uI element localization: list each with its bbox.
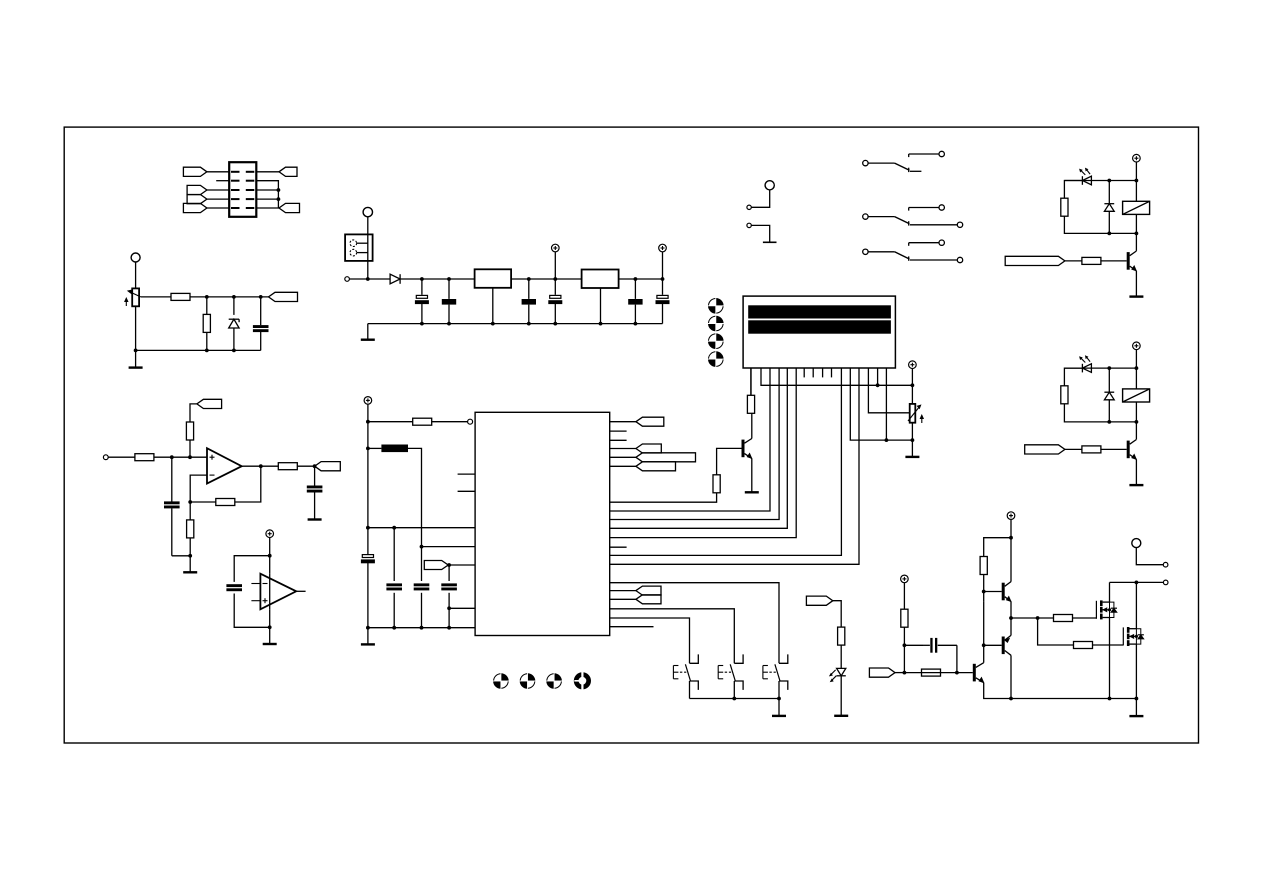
junction <box>982 590 986 594</box>
relay coil K 2 <box>1123 389 1150 402</box>
supply symbol V+ 1 <box>1133 154 1141 180</box>
wire emitter Q2 <box>1010 618 1012 635</box>
wire bus RS <box>610 368 842 555</box>
resistor <box>203 314 210 332</box>
wire 2 <box>1135 402 1137 422</box>
LED 2 <box>1080 356 1092 373</box>
rotary mark <box>708 316 724 332</box>
supply symbol V+ top <box>1007 512 1015 582</box>
resistor reset pullup <box>413 418 432 425</box>
capacitor input filter <box>164 457 190 556</box>
output capacitor <box>307 466 323 519</box>
wire bus DB7 <box>610 368 797 538</box>
wire main rail <box>400 278 474 280</box>
junction <box>277 188 281 192</box>
wire 2 <box>1064 404 1136 422</box>
ground <box>834 715 848 717</box>
wire buttons ground rail <box>690 698 780 700</box>
junction <box>447 626 451 630</box>
wire <box>141 296 171 298</box>
contrast trimmer body <box>910 404 916 423</box>
ground <box>1129 715 1143 717</box>
input terminal <box>103 455 108 460</box>
wire <box>206 332 208 350</box>
stub bar <box>763 241 777 243</box>
resistor gate M2 <box>1074 642 1093 649</box>
ground <box>745 491 759 493</box>
junction <box>1108 697 1112 701</box>
plus stub <box>251 598 267 603</box>
ground <box>772 715 786 717</box>
junction 2 <box>1107 366 1111 370</box>
net flag <box>636 462 676 471</box>
junction <box>259 295 263 299</box>
wire <box>190 404 197 422</box>
wire output node <box>1011 617 1054 619</box>
wire <box>840 676 842 716</box>
wire emitter 2 <box>1135 459 1137 484</box>
wire <box>840 645 842 668</box>
terminal pad <box>765 181 774 190</box>
wire <box>1073 617 1097 619</box>
push button S6 <box>763 654 788 698</box>
trimmer adjust arrow <box>125 298 128 306</box>
wire source M2 <box>1135 644 1137 698</box>
capacitor C o2 polarized <box>548 279 562 324</box>
junction <box>1009 697 1013 701</box>
wire reset pullup <box>368 421 413 423</box>
rotary mark <box>708 351 724 367</box>
junction <box>170 455 174 459</box>
supply symbol V+ 2 <box>659 244 667 279</box>
resistor gate M1 <box>1054 615 1073 622</box>
junction <box>634 277 638 281</box>
junction <box>205 295 209 299</box>
wire bottom rail <box>368 323 663 325</box>
transistor Q2 PNP <box>1002 635 1011 655</box>
junction <box>903 671 907 675</box>
junction <box>903 643 907 647</box>
open pin <box>747 205 751 209</box>
supply symbol V+ opamp <box>266 530 274 574</box>
net flag row1 left <box>183 167 207 176</box>
wire row4 right <box>256 198 278 200</box>
microcontroller IC3 box <box>475 412 610 635</box>
junction <box>313 464 317 468</box>
junction <box>553 277 557 281</box>
switch S2 <box>863 205 963 228</box>
resistor base 2 <box>1065 446 1127 453</box>
junction <box>268 554 272 558</box>
wire <box>297 465 314 467</box>
junction <box>420 626 424 630</box>
open pin <box>1163 580 1168 585</box>
wire through triangle <box>269 574 271 628</box>
junction <box>527 277 531 281</box>
net flag row5 right <box>279 203 300 212</box>
net flag 1 <box>1005 256 1065 265</box>
wire <box>448 564 475 566</box>
junction <box>527 322 531 326</box>
junction <box>732 697 736 701</box>
wire <box>1135 699 1137 716</box>
transistor Q1 NPN <box>1002 582 1011 602</box>
wire <box>367 628 369 644</box>
wire emitter 1 <box>1135 271 1137 296</box>
LCD pin 2 lead to V+ <box>761 368 912 385</box>
wire base Q2 <box>984 644 1002 646</box>
ferrite bead L1 <box>368 445 408 453</box>
resistor <box>171 293 190 300</box>
ground <box>361 643 375 645</box>
wire <box>984 538 1011 557</box>
push button S4 <box>673 654 698 698</box>
net flag status LED <box>806 596 832 605</box>
wire pin <box>610 590 636 592</box>
wire <box>895 672 904 674</box>
junction <box>188 500 192 504</box>
push button S5 <box>718 654 743 698</box>
wire <box>511 278 581 280</box>
flyback diode 1 <box>1104 181 1114 234</box>
connector SV1 pin row 5 dashes <box>231 207 254 209</box>
resistor backlight base <box>713 466 720 493</box>
net flag <box>636 586 661 595</box>
wire <box>207 171 229 173</box>
capacitor C o1 <box>522 279 536 324</box>
LCD pin 15 lead <box>877 368 879 385</box>
rotary mark <box>520 673 536 689</box>
capacitor C o3 <box>628 279 642 324</box>
ground <box>129 366 143 368</box>
flyback diode 2 <box>1104 368 1114 422</box>
LED 1 <box>1080 168 1092 185</box>
reset pin bubble <box>468 419 473 424</box>
wire collector <box>751 413 753 438</box>
jack pin contact 1 <box>350 240 368 247</box>
rotary mark <box>708 298 724 314</box>
supply symbol V+ <box>552 244 560 279</box>
connector SV1 pin row 3 dashes <box>231 189 254 191</box>
junction <box>599 322 603 326</box>
bypass capacitor <box>226 584 242 591</box>
wire <box>367 261 369 279</box>
connector SV1 pin row 4 dashes <box>231 198 254 200</box>
wire drain M2 <box>1135 582 1137 628</box>
LCD display box <box>743 296 895 368</box>
junction <box>955 671 959 675</box>
ground <box>263 643 277 645</box>
LCD row1 black bar <box>748 305 891 318</box>
resistor LED 2 <box>1061 386 1068 404</box>
voltage regulator IC2 <box>582 270 619 324</box>
wire emitter <box>751 458 753 492</box>
ground <box>905 456 919 458</box>
junction <box>634 322 638 326</box>
wire 2 <box>1135 368 1137 389</box>
capacitor C mcu3 <box>441 565 457 628</box>
trimmer R body <box>132 288 139 306</box>
net flag row5 left <box>183 203 207 212</box>
open pin <box>345 277 350 282</box>
wire row5 right <box>256 207 279 209</box>
junction 2 <box>1135 366 1139 370</box>
wire <box>911 423 913 440</box>
net flag row1 right <box>279 167 297 176</box>
wire button1 net <box>610 618 690 663</box>
junction <box>911 438 915 442</box>
trimmer adjust arrow <box>920 415 923 423</box>
wire bottom <box>136 306 261 350</box>
LCD row2 black bar <box>748 320 891 333</box>
junction <box>188 455 192 459</box>
relay coil K 1 <box>1123 201 1150 214</box>
capacitor C mcu1 <box>386 528 402 628</box>
wire 1 <box>1135 181 1137 202</box>
junction <box>420 322 424 326</box>
wire <box>367 324 369 340</box>
ground 1 <box>1129 295 1143 297</box>
wire <box>833 601 841 627</box>
ground <box>361 339 375 341</box>
rotary mark <box>493 673 509 689</box>
ground <box>308 518 322 520</box>
LCD pin 14 lead to wiper <box>868 368 910 413</box>
junction 1 <box>1107 232 1111 236</box>
pin stub <box>610 626 654 628</box>
junction <box>232 349 236 353</box>
junction 1 <box>1135 232 1139 236</box>
MOSFET M1 <box>1096 600 1117 619</box>
junction 2 <box>1135 420 1139 424</box>
junction <box>277 197 281 201</box>
wire row2 right <box>256 181 278 208</box>
wire <box>751 225 769 242</box>
wire <box>189 440 191 457</box>
wire collector Q3 <box>983 601 985 663</box>
resistor bias <box>901 609 908 627</box>
wire emitter Q1 <box>1010 602 1012 619</box>
diode D1 <box>390 274 400 284</box>
wire <box>778 699 780 716</box>
LCD pin 16 lead <box>885 368 887 440</box>
wire output <box>242 465 279 467</box>
pin stub <box>610 430 627 432</box>
junction <box>447 277 451 281</box>
wire emitter Q3 <box>984 683 1137 699</box>
wire base Q1 <box>984 591 1002 593</box>
supply symbol V+ 2 <box>1133 342 1141 368</box>
wire bus DB4 <box>610 368 770 511</box>
wire pin <box>610 421 636 423</box>
wire backlight control <box>610 493 717 502</box>
net flag PWM <box>869 668 895 677</box>
junction <box>232 295 236 299</box>
MOSFET M2 <box>1123 627 1144 646</box>
capacitor feedback <box>904 638 957 673</box>
junction <box>268 625 272 629</box>
connector SV1 box <box>229 162 256 217</box>
junction <box>1009 616 1013 620</box>
resistor <box>186 422 193 440</box>
wire <box>903 627 905 672</box>
wire row3 right <box>256 189 278 191</box>
jack pin contact 2 <box>350 249 368 256</box>
wire <box>207 189 229 191</box>
wire pin <box>610 598 636 600</box>
wire inverting input <box>190 475 207 502</box>
wire <box>751 190 769 207</box>
junction <box>885 438 889 442</box>
bypass cap wire left <box>234 556 270 582</box>
terminal pad power input <box>363 207 372 216</box>
schematic frame border <box>64 127 1198 743</box>
rotary mark <box>708 333 724 349</box>
switch S3 <box>863 240 963 263</box>
net flag <box>636 453 696 462</box>
LED status <box>830 668 846 681</box>
junction <box>366 626 370 630</box>
junction <box>134 349 138 353</box>
resistor base 1 <box>1065 257 1127 264</box>
output stub <box>296 590 305 592</box>
LCD pin stub <box>812 368 814 377</box>
junction <box>447 322 451 326</box>
junction <box>1036 616 1040 620</box>
wire button2 net <box>610 609 735 664</box>
pin stub <box>610 546 627 548</box>
wire 1 <box>1135 214 1137 233</box>
junction <box>259 464 263 468</box>
wire bus DB5 <box>610 368 779 520</box>
transistor Q relay 2 <box>1127 440 1137 460</box>
LCD pin RW to ground <box>850 368 912 440</box>
junction <box>205 349 209 353</box>
junction 1 <box>1107 179 1111 183</box>
supply symbol V+ driver <box>901 575 909 609</box>
minus stub <box>251 583 267 585</box>
op-amp minus input symbol <box>210 474 215 476</box>
wire <box>349 278 390 280</box>
capacitor C mcu2 <box>414 583 430 627</box>
wire pin <box>610 448 636 450</box>
resistor LED R <box>838 627 845 645</box>
wire pin <box>610 456 636 458</box>
junction <box>366 420 370 424</box>
resistor backlight <box>747 368 754 413</box>
capacitor C in1 polarized <box>415 279 429 324</box>
junction <box>661 277 665 281</box>
op-amp U1 power triangle <box>260 574 296 610</box>
pin stub <box>610 439 627 441</box>
wire top rail 2 <box>1064 367 1136 369</box>
wire <box>619 278 663 280</box>
junction <box>366 447 370 451</box>
connector SV1 pin row 1 dashes <box>231 171 254 173</box>
junction <box>553 322 557 326</box>
capacitor C mcu polarized <box>361 528 375 628</box>
junction <box>392 626 396 630</box>
feedback wire <box>235 466 261 502</box>
net flag <box>636 417 664 426</box>
xtal pin stub 1 <box>458 473 476 475</box>
ground 2 <box>1129 484 1143 486</box>
wire <box>234 594 270 628</box>
LCD pin stub <box>822 368 824 377</box>
junction <box>420 545 424 549</box>
wire <box>269 627 271 643</box>
wire 1 <box>1064 216 1136 233</box>
junction <box>447 563 451 567</box>
net flag <box>636 444 661 453</box>
open pin <box>747 223 751 227</box>
junction <box>982 643 986 647</box>
ground <box>183 571 197 573</box>
op-amp U1 triangle <box>207 448 242 483</box>
transistor Q3 <box>973 663 984 683</box>
wire bus DB6 <box>610 368 788 528</box>
resistor LED 1 <box>1061 198 1068 216</box>
supply symbol V+ MCU <box>364 397 372 528</box>
wire 2 <box>1064 368 1082 386</box>
wire <box>135 350 137 367</box>
wire ground rail MCU <box>368 627 475 629</box>
LCD pin stub <box>803 368 805 377</box>
LCD pin stub <box>831 368 833 377</box>
rotary mark <box>546 673 562 689</box>
wire <box>154 456 207 458</box>
wire <box>135 262 137 288</box>
xtal pin stub 2 <box>458 490 476 492</box>
resistor base Q3 <box>922 669 941 676</box>
wire button3 net <box>610 583 779 664</box>
wire 1 <box>1135 233 1137 251</box>
wire row1 right <box>256 171 279 173</box>
wire 2 <box>1135 422 1137 440</box>
junction <box>491 322 495 326</box>
junction <box>1135 581 1139 585</box>
op-amp plus input symbol <box>210 455 215 460</box>
capacitor C o4 polarized <box>656 279 670 324</box>
net flag <box>269 292 298 301</box>
wire bus E <box>610 368 859 564</box>
rotary mark ring <box>574 672 591 690</box>
feedback resistor <box>216 499 235 506</box>
junction <box>188 554 192 558</box>
junction <box>911 383 915 387</box>
net flag row3 left <box>187 185 207 194</box>
switch S1 <box>863 151 945 172</box>
wire <box>1136 548 1163 565</box>
resistor <box>135 454 154 461</box>
supply symbol V+ LCD <box>909 361 917 404</box>
connector SV1 pin row 2 dashes <box>231 180 254 182</box>
terminal pad <box>131 253 140 262</box>
junction <box>777 697 781 701</box>
wire 1 <box>1064 181 1082 199</box>
wire <box>422 546 476 548</box>
net flag 2 <box>1025 445 1065 454</box>
wire <box>190 501 216 503</box>
wire source M1 <box>1109 618 1111 699</box>
wire <box>367 217 369 235</box>
trimmer wiper arrow <box>128 290 141 297</box>
output resistor <box>278 463 297 470</box>
wire pin <box>610 465 636 467</box>
voltage regulator IC1 <box>475 269 512 323</box>
net flag <box>197 399 222 408</box>
wire AGND <box>449 607 475 609</box>
